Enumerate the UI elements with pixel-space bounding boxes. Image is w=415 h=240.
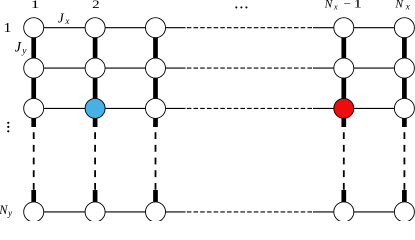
wire Jx bond row 1 col2-col3 <box>95 27 155 29</box>
site (Nx-1,1) <box>334 18 354 38</box>
svg-text:2: 2 <box>92 0 100 11</box>
site (1,2) <box>24 58 44 78</box>
wire Jy bond col 2 vertical ellipsis dashed <box>94 127 96 190</box>
wire Jy bond col Nx-1 row Ny upper stub (thick) <box>341 190 346 212</box>
wire Jy bond col 1 row3 lower stub (thick) <box>31 108 36 127</box>
wire Jy bond col 1 row1-row2 (thick) <box>31 28 36 68</box>
label left vertical ellipsis (dots) <box>7 122 9 133</box>
wire Jx bond row 2 col2-col3 <box>95 67 155 69</box>
site (3,2) <box>146 58 166 78</box>
wire Jy bond col 2 row2-row3 (thick) <box>93 68 98 108</box>
site (1,1) <box>24 18 44 38</box>
wire Jx bond row 2 col1-col2 <box>34 67 95 69</box>
wire Jy bond col 3 vertical ellipsis dashed <box>155 127 157 190</box>
wire Jx bond row 2 col Nx-1 - col Nx <box>344 67 405 69</box>
wire Jy bond col 2 row1-row2 (thick) <box>93 28 98 68</box>
site (2,3) highlighted blue <box>85 98 105 118</box>
wire Jx bond row 1 col Nx-1 - col Nx <box>344 27 405 29</box>
wire Jy bond col Nx-1 vertical ellipsis dashed <box>343 127 345 190</box>
wire Jy bond col 1 row Ny upper stub (thick) <box>31 190 36 212</box>
wire Jy bond col 3 row2-row3 (thick) <box>153 68 158 108</box>
label top ellipsis (dots) <box>235 6 247 8</box>
site (2,2) <box>85 58 105 78</box>
svg-text:1: 1 <box>3 21 11 35</box>
wire Jy bond col Nx row Ny upper stub (thick) <box>402 190 407 212</box>
wire Jx bond row Ny ellipsis dashed middle <box>186 211 314 213</box>
wire Jx bond row 3 col1-col2 <box>34 107 95 109</box>
wire Jx bond row 3 ellipsis dashed middle <box>186 107 314 109</box>
wire Jy bond col Nx-1 row1-row2 (thick) <box>341 28 346 68</box>
wire Jx bond row 3 col3 to ellipsis (solid stub) <box>156 107 186 109</box>
site (Nx,1) <box>394 18 414 38</box>
wire Jy bond col Nx row1-row2 (thick) <box>402 28 407 68</box>
wire Jx bond row 1 col3 to ellipsis (solid stub) <box>156 27 186 29</box>
site (Nx,2) <box>394 58 414 78</box>
wire Jy bond col 1 vertical ellipsis dashed <box>33 127 35 190</box>
site (1,3) <box>24 98 44 118</box>
wire Jy bond col Nx vertical ellipsis dashed <box>403 127 405 190</box>
wire Jy bond col 3 row Ny upper stub (thick) <box>153 190 158 212</box>
site (3,1) <box>146 18 166 38</box>
wire Jx bond row 2 ellipsis dashed middle <box>186 67 314 69</box>
svg-text:1: 1 <box>353 0 362 11</box>
wire Jx bond row 1 ellipsis to col Nx-1 (solid stub) <box>313 27 344 29</box>
site (Nx-1,Ny) <box>334 202 354 222</box>
wire Jy bond col 2 row3 lower stub (thick) <box>93 108 98 127</box>
wire Jx bond row Ny ellipsis to col Nx-1 (solid stub) <box>313 211 344 213</box>
site (Nx,3) <box>394 98 414 118</box>
wire Jx bond row 1 col1-col2 <box>34 27 95 29</box>
site (3,Ny) <box>146 202 166 222</box>
svg-text:1: 1 <box>31 0 40 11</box>
wire Jx bond row Ny col Nx-1 - col Nx <box>344 211 405 213</box>
svg-text:Nx−: Nx− <box>324 0 351 12</box>
wire Jy bond col Nx-1 row3 lower stub (thick) <box>341 108 346 127</box>
wire Jy bond col Nx row2-row3 (thick) <box>402 68 407 108</box>
wire Jx bond row 3 ellipsis to col Nx-1 (solid stub) <box>313 107 344 109</box>
site (Nx-1,2) <box>334 58 354 78</box>
site (Nx-1,3) highlighted red <box>334 98 354 118</box>
wire Jy bond col Nx row3 lower stub (thick) <box>402 108 407 127</box>
wire Jx bond row Ny col2-col3 <box>95 211 155 213</box>
wire Jx bond row Ny col3 to ellipsis (solid stub) <box>156 211 186 213</box>
wire Jx bond row Ny col1-col2 <box>34 211 95 213</box>
wire Jy bond col 3 row1-row2 (thick) <box>153 28 158 68</box>
site (2,1) <box>85 18 105 38</box>
site (Nx,Ny) <box>394 202 414 222</box>
wire Jx bond row 3 col Nx-1 - col Nx <box>344 107 405 109</box>
wire Jx bond row 2 col3 to ellipsis (solid stub) <box>156 67 186 69</box>
wire Jx bond row 1 ellipsis dashed middle <box>186 27 314 29</box>
svg-text:Nx: Nx <box>394 0 409 12</box>
wire Jx bond row 2 ellipsis to col Nx-1 (solid stub) <box>313 67 344 69</box>
wire Jy bond col 1 row2-row3 (thick) <box>31 68 36 108</box>
site (3,3) <box>146 98 166 118</box>
wire Jy bond col 2 row Ny upper stub (thick) <box>93 190 98 212</box>
site (1,Ny) <box>24 202 44 222</box>
wire Jx bond row 3 col2-col3 <box>95 107 155 109</box>
wire Jy bond col Nx-1 row2-row3 (thick) <box>341 68 346 108</box>
wire Jy bond col 3 row3 lower stub (thick) <box>153 108 158 127</box>
site (2,Ny) <box>85 202 105 222</box>
